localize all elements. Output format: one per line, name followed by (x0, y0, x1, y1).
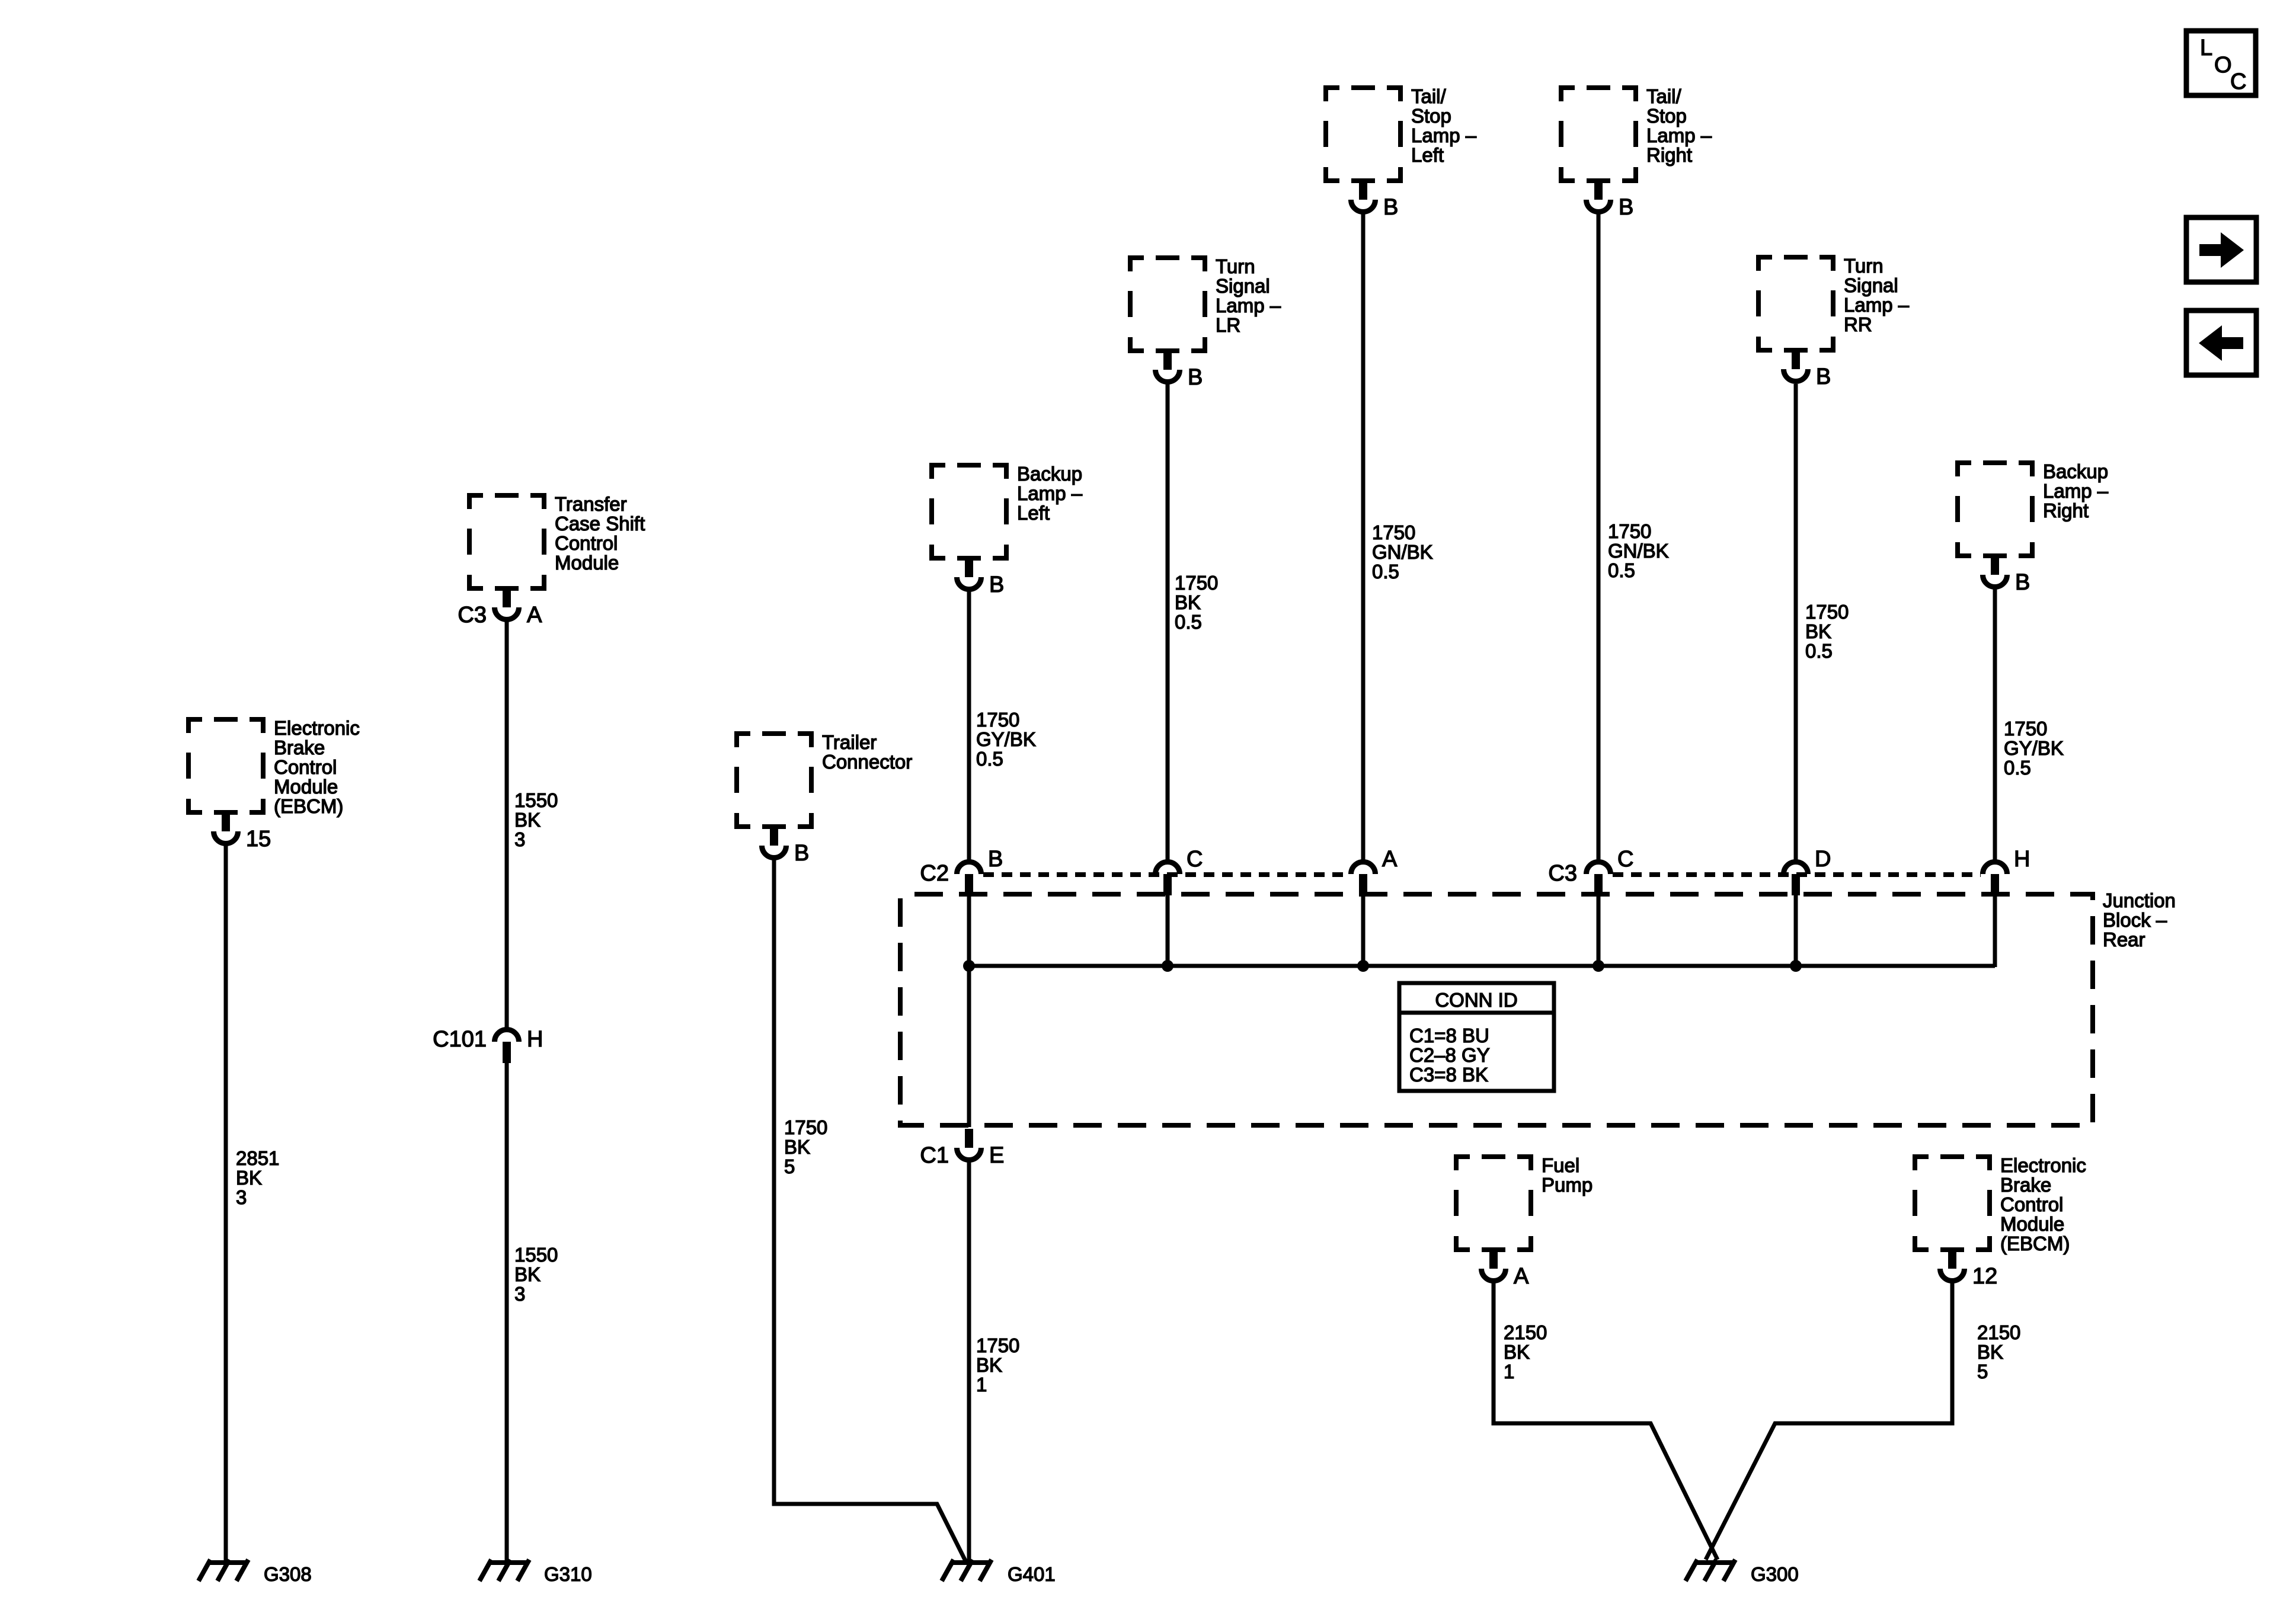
junction block connector pin A at x=2300 (1351, 862, 1376, 875)
svg-text:B: B (988, 847, 1003, 872)
svg-text:B: B (1188, 365, 1203, 390)
svg-text:H: H (2014, 847, 2030, 872)
svg-text:D: D (1815, 847, 1831, 872)
svg-text:C3: C3 (1548, 861, 1577, 886)
junction internal wire at pin C (1166, 894, 1170, 967)
junction node at x=1635 (963, 960, 975, 972)
wire 2851 BK from EBCM left pin 15 to G308 (224, 846, 228, 1561)
junction block connector pin H at x=3366 (1983, 862, 2007, 875)
svg-text:B: B (989, 572, 1004, 597)
svg-text:C: C (1187, 847, 1203, 872)
svg-text:15: 15 (246, 827, 271, 852)
junction block connector pin C at x=2697 (1587, 862, 1611, 875)
junction internal wire at pin H (1993, 894, 1997, 967)
junction block - rear dashed outline (900, 894, 2093, 1125)
junction node at x=3030 (1790, 960, 1802, 972)
wire 1750 BK from turn signal lamp LR to junction C (1166, 384, 1170, 860)
junction block connector C1 pin E (965, 1129, 973, 1148)
svg-text:C2: C2 (920, 861, 949, 886)
junction block connector pin B at x=1635 (957, 862, 981, 875)
junction node at x=1970 (1162, 960, 1173, 972)
wire 1550 BK upper segment from transfer case module to C101 (505, 622, 509, 1028)
transfer case shift control module box (469, 495, 544, 588)
backup lamp - left box (932, 465, 1006, 558)
svg-text:B: B (1619, 195, 1633, 220)
svg-text:G401: G401 (1008, 1563, 1056, 1585)
tail/stop lamp - left box (1326, 88, 1400, 181)
junction internal wire at pin A (1361, 894, 1366, 967)
junction block connector pin C at x=1970 (1156, 862, 1180, 875)
connector pin B at tail/stop lamp right (1594, 180, 1603, 200)
turn signal lamp - LR box (1130, 258, 1205, 351)
svg-text:12: 12 (1972, 1264, 1997, 1289)
tail/stop lamp - right box (1561, 88, 1636, 181)
electronic brake control module EBCM (right) box (1915, 1157, 1990, 1250)
connector pin 15 at EBCM left (222, 811, 230, 831)
wire 1750 BK 5 from trailer connector to G401 (774, 860, 966, 1562)
junction internal wire at pin C (1597, 894, 1601, 967)
svg-text:G300: G300 (1751, 1563, 1799, 1585)
junction node at x=2697 (1593, 960, 1604, 972)
svg-text:C: C (1617, 847, 1633, 872)
svg-text:A: A (527, 603, 542, 628)
svg-text:A: A (1382, 847, 1398, 872)
svg-text:A: A (1514, 1264, 1529, 1289)
svg-text:C1=8 BUC2–8 GYC3=8 BK: C1=8 BUC2–8 GYC3=8 BK (1409, 1025, 1490, 1086)
LOC legend box (2186, 31, 2256, 95)
junction block connector pin D at x=3030 (1784, 862, 1808, 875)
trailer connector box (737, 734, 811, 827)
wire 1750 GY/BK from backup lamp right to junction H (1993, 589, 1997, 860)
svg-text:B: B (1816, 364, 1831, 389)
fuel pump box (1456, 1157, 1531, 1250)
dotted connector line C2 group (983, 872, 1349, 877)
connector pin B at backup lamp left (965, 557, 973, 577)
svg-text:B: B (1383, 195, 1398, 220)
svg-text:E: E (989, 1143, 1004, 1168)
connector pin B at turn signal lamp LR (1163, 350, 1172, 370)
junction internal wire at pin D (1794, 894, 1798, 967)
left arrow legend box (2186, 311, 2256, 375)
svg-text:L: L (2200, 36, 2212, 60)
wire 1750 GN/BK from tail/stop lamp right to junction C3-C (1597, 214, 1601, 860)
svg-text:B: B (794, 841, 809, 866)
junction internal wire at pin B (967, 894, 971, 1127)
svg-text:B: B (2015, 570, 2030, 595)
connector pin B at trailer connector (770, 825, 778, 846)
right arrow legend box (2186, 217, 2256, 282)
connector C3 pin A at transfer case module (503, 587, 511, 607)
svg-text:G308: G308 (264, 1563, 312, 1585)
connector pin 12 at EBCM right (1948, 1249, 1956, 1269)
svg-text:C1: C1 (920, 1143, 949, 1168)
svg-text:H: H (527, 1027, 543, 1052)
junction block internal bus wire (969, 964, 1995, 968)
connector pin B at turn signal lamp RR (1792, 349, 1800, 369)
wire 1750 GY/BK from backup lamp left to junction B (967, 591, 971, 860)
svg-text:G310: G310 (544, 1563, 592, 1585)
junction node at x=2300 (1357, 960, 1369, 972)
wire 2150 BK 5 from EBCM right to G300 (1706, 1283, 1952, 1560)
electronic brake control module EBCM (left) box (188, 719, 263, 812)
inline connector C101 pin H (495, 1030, 519, 1042)
svg-text:C: C (2230, 69, 2246, 94)
svg-text:C3: C3 (458, 603, 487, 628)
svg-text:O: O (2214, 53, 2232, 78)
connector pin B at backup lamp right (1991, 555, 1999, 575)
CONN ID table (1399, 983, 1554, 1091)
svg-text:CONN ID: CONN ID (1435, 989, 1517, 1011)
backup lamp - right box (1958, 463, 2032, 556)
ground G300 (1694, 1560, 1734, 1565)
wire 2150 BK 1 from fuel pump to G300 (1494, 1283, 1718, 1560)
connector pin A at fuel pump (1489, 1249, 1498, 1269)
ground G310 (488, 1560, 528, 1565)
turn signal lamp - RR box (1758, 257, 1833, 350)
ground G308 (207, 1560, 247, 1565)
wire 1550 BK lower segment from C101 to G310 (505, 1062, 509, 1561)
wire 1750 BK from turn signal lamp RR to junction D (1794, 384, 1798, 860)
svg-text:C101: C101 (433, 1027, 487, 1052)
ground G401 (951, 1560, 990, 1565)
wire 1750 GN/BK from tail/stop lamp left to junction A (1361, 214, 1366, 860)
connector pin B at tail/stop lamp left (1359, 180, 1367, 200)
dotted connector line C3 group (1613, 872, 1981, 877)
wire 1750 BK 1 from junction C1-E to G401 (967, 1160, 971, 1561)
